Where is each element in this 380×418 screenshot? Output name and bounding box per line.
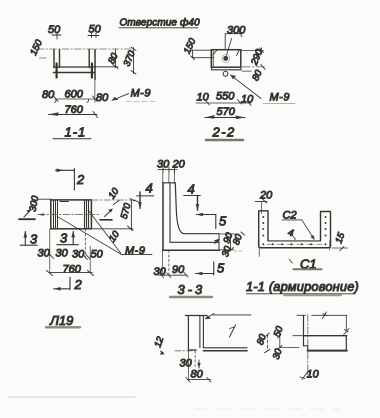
svg-text:30: 30 [154, 266, 167, 278]
svg-text:2-2: 2-2 [212, 125, 236, 140]
svg-text:30: 30 [56, 248, 69, 260]
dim line 80 right [115, 49, 117, 68]
svg-text:80: 80 [255, 332, 269, 346]
L profile [163, 182, 176, 184]
faint bottom page line [8, 396, 135, 398]
rebar dots right wall [325, 216, 327, 218]
svg-text:2: 2 [74, 277, 83, 292]
svg-text:50: 50 [48, 24, 61, 36]
svg-text:М-9: М-9 [125, 245, 145, 257]
plate horizontals [203, 347, 247, 349]
weld ticks on rect top corners [213, 50, 239, 56]
svg-text:2: 2 [76, 172, 85, 187]
weld slash right [344, 329, 349, 335]
U channel: bottom bar [54, 66, 95, 68]
inner left verticals [54, 200, 58, 229]
bottom edge ext right [91, 228, 133, 230]
slab inner dashes [267, 243, 322, 245]
svg-text:4: 4 [146, 181, 153, 196]
section 5 lower [196, 262, 214, 275]
top edge ext left + 300 [37, 198, 50, 200]
section 3 left [20, 232, 37, 246]
svg-text:М-9: М-9 [131, 88, 151, 100]
svg-text:30: 30 [271, 347, 285, 361]
outer rect [51, 200, 92, 229]
section 5 upper [197, 215, 217, 229]
bottom flange [212, 69, 242, 71]
channel walls [259, 211, 268, 241]
C1 label [289, 260, 292, 264]
svg-text:30: 30 [38, 248, 51, 260]
svg-text:1-1 (армировоние): 1-1 (армировоние) [246, 279, 359, 294]
section 2 top [56, 169, 75, 191]
svg-text:М-9: М-9 [270, 92, 290, 104]
svg-text:10: 10 [197, 92, 210, 104]
svg-text:760: 760 [63, 263, 82, 275]
left dims 150 [191, 49, 211, 51]
svg-text:3-3: 3-3 [178, 282, 206, 297]
svg-text:3: 3 [60, 231, 68, 246]
top-right dashdot + 10 [91, 199, 135, 201]
U channel: left wall [54, 50, 60, 68]
svg-text:Л19: Л19 [49, 313, 73, 328]
svg-text:80: 80 [106, 51, 121, 66]
svg-text:10: 10 [307, 369, 320, 381]
svg-text:50: 50 [89, 24, 102, 36]
svg-text:20: 20 [259, 190, 273, 202]
svg-text:12: 12 [152, 335, 166, 349]
svg-text:3: 3 [30, 232, 38, 247]
plate [293, 335, 304, 337]
right dims 290 / 80 [241, 50, 264, 52]
small circle below [223, 71, 228, 76]
svg-text:80: 80 [191, 369, 204, 381]
section 3 right [57, 232, 78, 245]
inner top dashes [60, 201, 69, 203]
left solid vertical [303, 315, 305, 345]
leader to hole [226, 39, 231, 56]
svg-text:50: 50 [91, 249, 104, 261]
svg-text:4: 4 [188, 182, 195, 197]
right dims [219, 233, 239, 235]
plate rect [211, 50, 241, 67]
centerline dash-dot [37, 48, 134, 50]
svg-text:150: 150 [28, 38, 45, 58]
U channel: right wall [88, 50, 90, 68]
svg-text:5: 5 [219, 214, 227, 229]
15 right [329, 241, 331, 250]
left ext below slab [258, 248, 260, 257]
svg-text:150: 150 [182, 36, 199, 56]
svg-text:10: 10 [106, 186, 121, 202]
ext lines down [163, 170, 175, 184]
M-9 leaders [89, 211, 122, 254]
svg-text:Отверстие ф40: Отверстие ф40 [120, 17, 201, 29]
rebar dots left wall [262, 216, 264, 218]
inner right verticals [85, 200, 89, 229]
dim line 370 right [133, 48, 135, 74]
hole [223, 56, 228, 61]
svg-text:15: 15 [333, 231, 347, 245]
dash-dot vertical [307, 315, 309, 377]
leader w arrow [213, 314, 251, 316]
svg-text:370: 370 [122, 49, 138, 68]
svg-text:1-1: 1-1 [65, 125, 87, 140]
svg-text:30: 30 [220, 244, 234, 258]
svg-text:10: 10 [241, 94, 254, 106]
svg-text:80: 80 [96, 92, 109, 104]
section 2 bottom [54, 277, 70, 290]
bold end ticks [55, 64, 57, 78]
svg-text:10: 10 [107, 229, 122, 245]
570 dim right [130, 200, 132, 231]
small dash left [40, 57, 47, 59]
center dash-dot [38, 214, 99, 216]
svg-text:570: 570 [217, 106, 236, 118]
svg-text:90: 90 [172, 264, 185, 276]
svg-text:30: 30 [157, 159, 170, 171]
M-9 leader diagonal [230, 75, 261, 99]
svg-text:30: 30 [72, 249, 85, 261]
right view arrow 1 [105, 210, 113, 217]
svg-text:5: 5 [217, 261, 225, 276]
section 4 left [139, 192, 141, 208]
section 4 right [197, 196, 199, 211]
svg-text:80: 80 [42, 89, 55, 101]
rebar dots slab [262, 243, 264, 245]
left view arrow [24, 211, 30, 218]
svg-text:80: 80 [250, 68, 265, 83]
svg-text:300: 300 [227, 25, 246, 37]
svg-text:20: 20 [172, 159, 186, 171]
svg-text:550: 550 [216, 91, 235, 103]
break/weld slash right [230, 325, 236, 337]
faint bottom right smudge [195, 408, 340, 410]
slab [268, 240, 321, 242]
